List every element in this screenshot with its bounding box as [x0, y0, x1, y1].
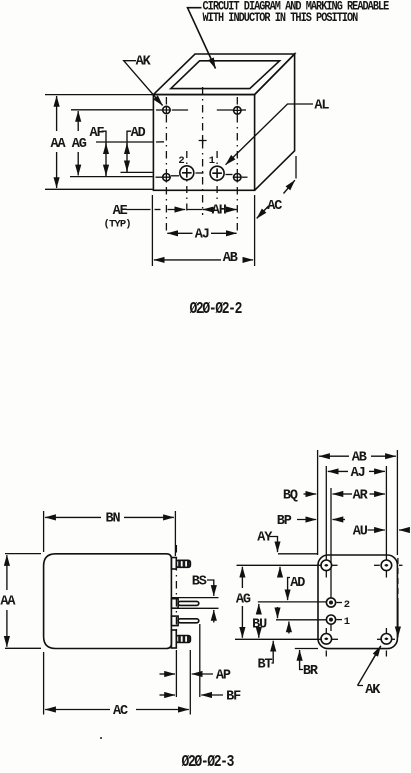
face center cross: [199, 137, 207, 145]
hole bottom-left: [162, 173, 171, 182]
dimension AP: [160, 673, 214, 675]
svg-text:BU: BU: [252, 617, 267, 632]
centerline column face center: [202, 87, 204, 215]
hole top-left (AK): [162, 106, 171, 115]
svg-text:AD: AD: [131, 126, 146, 141]
extension line center row: [96, 141, 164, 143]
hole rear top-right: [381, 560, 392, 571]
terminal 2 row extension: [258, 601, 329, 603]
body outline: [44, 554, 172, 649]
svg-text:AA: AA: [0, 595, 16, 610]
dimension AG rear: [241, 567, 243, 638]
terminal labels 2 and 1: [178, 155, 214, 167]
svg-text:AR: AR: [353, 488, 369, 503]
svg-text:Ø2Ø-Ø2-3: Ø2Ø-Ø2-3: [182, 754, 235, 772]
box top face outer: [153, 54, 294, 95]
svg-text:Ø2Ø-Ø2-2: Ø2Ø-Ø2-2: [190, 301, 242, 319]
centerline column right holes: [236, 97, 238, 233]
terminal 2 rear: [326, 598, 342, 607]
svg-text:AD: AD: [290, 576, 305, 591]
arrow terminal1 row: [277, 607, 279, 618]
note leader arrow to top face: [188, 8, 216, 69]
svg-text:AY: AY: [257, 531, 273, 546]
svg-text:1: 1: [344, 616, 350, 628]
svg-text:AP: AP: [216, 669, 231, 684]
svg-text:BS: BS: [192, 574, 207, 589]
centerline column left holes: [165, 97, 167, 233]
top mounting stud: [171, 558, 190, 570]
dimension BN: [44, 511, 176, 556]
svg-text:AC: AC: [267, 199, 282, 214]
dimension AR: [333, 493, 385, 495]
hole rear bottom-right (AK): [381, 634, 392, 645]
hole rear bottom-left: [321, 634, 332, 645]
dimension AJ: [167, 232, 236, 234]
dimension AY: [270, 537, 281, 577]
hole bottom-right: [233, 173, 242, 182]
bottom hole row extension: [235, 638, 324, 640]
svg-text:AJ: AJ: [195, 228, 209, 243]
small dot: [100, 737, 102, 739]
box top face inner lid: [171, 61, 280, 89]
dimension AB: [154, 259, 253, 261]
dimension BR: [300, 650, 303, 670]
hole top-right: [233, 106, 242, 115]
svg-text:BN: BN: [106, 512, 121, 527]
terminal 1 rear: [326, 615, 342, 624]
svg-text:AA: AA: [51, 137, 67, 152]
extension lines BS: [172, 598, 219, 609]
centerline column terminal 2: [186, 151, 188, 214]
dimension BF: [160, 694, 224, 696]
extension line terminal row: [121, 171, 153, 173]
svg-text:AU: AU: [353, 524, 368, 539]
svg-text:2: 2: [344, 599, 350, 611]
terminal 1 row extension: [276, 619, 329, 621]
bottom mounting stud: [171, 630, 190, 648]
svg-text:AG: AG: [72, 137, 87, 152]
extension line AB right: [254, 195, 256, 266]
svg-text:BQ: BQ: [283, 488, 298, 503]
svg-text:AL: AL: [314, 99, 329, 114]
column extensions above plate: [318, 450, 398, 598]
dimension AA: [56, 96, 58, 188]
dimension AH: [187, 209, 237, 211]
extension line top hole row: [71, 109, 153, 111]
svg-text:AK: AK: [365, 683, 381, 698]
svg-text:2: 2: [178, 155, 184, 167]
dimension AD with elbow: [127, 131, 131, 172]
top edge extension: [278, 553, 318, 555]
terminal 1 circle: [210, 166, 224, 180]
extension line AB left: [151, 195, 153, 266]
svg-text:1: 1: [209, 155, 215, 167]
terminal 2 circle: [180, 166, 194, 180]
dimension BS with arrows: [207, 580, 214, 623]
dimension AC oblique: [257, 156, 296, 218]
dimension AE (TYP) leader: [127, 209, 186, 211]
svg-text:(TYP): (TYP): [104, 219, 131, 231]
dimension BQ leader: [304, 493, 317, 495]
dimension BT: [272, 641, 274, 663]
svg-text:AB: AB: [352, 451, 367, 466]
terminal 2 pin (lower): [171, 616, 198, 626]
dimension AG: [77, 111, 79, 175]
terminal 1 pin (upper): [171, 599, 198, 609]
bottom edge extension: [295, 648, 318, 650]
rows: top hole row extension: [237, 564, 325, 566]
dimension AU: [368, 529, 410, 531]
leader AK: [124, 61, 163, 106]
leader AL: [226, 104, 313, 165]
dimension AA side view: [5, 554, 41, 649]
extension line bottom edge: [45, 188, 153, 190]
svg-text:AE: AE: [113, 204, 128, 219]
note text: circuit diagram position: [203, 1, 390, 26]
extension line stud end: [189, 650, 191, 715]
centerline column terminal 1: [216, 151, 218, 199]
dimension AB rear: [319, 455, 396, 457]
extension line bottom hole row: [70, 176, 153, 178]
svg-text:WITH INDUCTOR IN THIS POSITION: WITH INDUCTOR IN THIS POSITION: [203, 12, 359, 25]
dimension BP leader: [297, 519, 345, 521]
dimension AF with elbow: [102, 131, 107, 176]
extension line pin end: [199, 624, 201, 697]
dimension BU: [258, 604, 260, 638]
extension line top edge: [45, 94, 153, 96]
svg-text:AB: AB: [223, 251, 238, 266]
svg-text:AH: AH: [212, 204, 227, 219]
caption figure 020-02-3: [182, 754, 235, 772]
svg-text:AG: AG: [236, 592, 251, 607]
leader AK rear: [358, 646, 381, 686]
svg-text:BT: BT: [258, 658, 273, 673]
centerline row top holes: [156, 109, 246, 111]
svg-text:AK: AK: [136, 55, 152, 70]
box right side face: [255, 54, 295, 190]
terminal number labels rear: [344, 599, 350, 628]
dimension AD rear: [288, 578, 290, 634]
svg-text:BR: BR: [303, 664, 319, 679]
dimension AC side view: [43, 652, 45, 715]
svg-text:AF: AF: [90, 126, 105, 141]
hole rear top-left: [321, 560, 332, 571]
centerline row bottom holes and terminals: [156, 173, 248, 177]
hole centerline ticks rear view: [326, 565, 402, 656]
svg-text:BF: BF: [226, 690, 241, 705]
svg-text:AC: AC: [113, 704, 128, 719]
caption figure 020-02-2: [190, 301, 242, 319]
svg-text:BP: BP: [277, 514, 292, 529]
plate outline: [318, 555, 397, 649]
seating plane centerline: [175, 545, 177, 650]
svg-text:AJ: AJ: [351, 466, 365, 481]
box front face: [153, 95, 254, 191]
right edge down arrow: [397, 558, 399, 637]
dimension AJ rear: [328, 470, 385, 472]
